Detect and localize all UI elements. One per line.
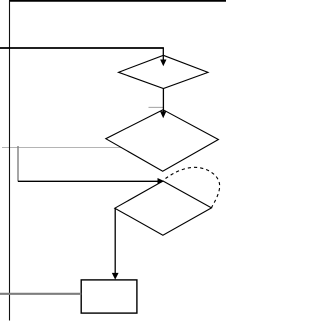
diamond D2 (decision) — [106, 110, 219, 172]
gray wire into process box left edge — [0, 293, 81, 295]
gray vertical wire segment — [17, 146, 19, 182]
gray stub near D1 bottom — [149, 106, 164, 108]
wire: vertical drop to diamond D1 — [162, 48, 164, 61]
arrowhead into diamond D1 — [161, 60, 166, 66]
wire: vertical from D1 bottom to diamond D2 — [162, 89, 164, 113]
wire: vertical from D3 left vertex down to process box — [114, 208, 116, 274]
wire: horizontal line into connector of diamond D1 — [0, 47, 164, 49]
arrowhead into diamond D3 (points right) — [158, 179, 164, 184]
dashed arc loop from D3 top to D3 right vertex — [166, 167, 220, 207]
diamond D3 (decision) — [115, 181, 212, 235]
wire: top border horizontal line — [9, 0, 226, 2]
wire: left vertical line — [9, 1, 11, 321]
light gray wire into D2 lower-left edge — [2, 147, 122, 149]
process box (rectangle) — [81, 280, 137, 313]
arrowhead into diamond D2 — [161, 112, 166, 118]
arrowhead into process box — [112, 273, 118, 279]
wire: horizontal line to diamond D3 — [18, 180, 159, 182]
diamond D1 (decision) — [119, 55, 209, 88]
